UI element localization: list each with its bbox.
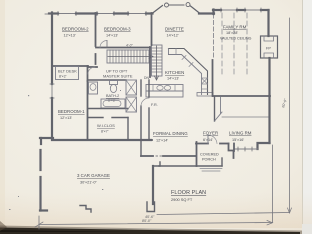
wall foot: garage SW corner <box>40 209 47 211</box>
dashed ceiling line 3 <box>246 13 248 74</box>
scan corner wedge <box>0 221 7 231</box>
svg-text:LIVING RM: LIVING RM <box>229 131 252 136</box>
svg-text:14'×12': 14'×12' <box>167 34 179 38</box>
svg-text:12'×13': 12'×13' <box>60 116 72 120</box>
wall: family room east lower <box>268 58 270 96</box>
wall: garage/dining vertical link <box>140 140 142 156</box>
text: refrigerator <box>151 103 158 107</box>
wall: west exterior lower <box>51 98 53 138</box>
svg-text:FAMILY RM: FAMILY RM <box>223 25 247 30</box>
fixture: tub <box>101 99 125 108</box>
wall: bedroom-3 east / dinette west <box>151 13 153 45</box>
svg-text:3 CAR GARAGE: 3 CAR GARAGE <box>77 173 110 178</box>
wall: dining west <box>148 80 150 97</box>
text: bedroom-1 <box>58 109 85 120</box>
wall stub: garage NW corner <box>40 138 42 144</box>
bay window right diagonal <box>191 6 201 14</box>
door arc: bedroom-3 <box>100 41 107 48</box>
text: bedroom-2 <box>62 27 89 38</box>
text: bedroom-3 <box>104 27 131 38</box>
svg-text:8'×7': 8'×7' <box>101 130 109 134</box>
wall: hall south / dining north region <box>141 139 152 141</box>
wall: family room north <box>213 9 268 11</box>
label: 4'-0 above stairs <box>126 44 134 48</box>
window: west wall bedroom-1 <box>51 84 53 98</box>
svg-text:FLOOR PLAN: FLOOR PLAN <box>171 190 206 196</box>
fixture: vanity <box>89 82 98 94</box>
porch steps <box>200 168 222 170</box>
svg-text:BEDROOM-3: BEDROOM-3 <box>104 27 131 32</box>
svg-text:VAULTED CEILING: VAULTED CEILING <box>220 37 252 41</box>
counter divisions <box>153 85 175 92</box>
svg-text:8'×2': 8'×2' <box>59 75 67 79</box>
fireplace FP <box>261 36 278 58</box>
door arc: hall/laundry <box>141 98 149 106</box>
bay window center <box>170 4 185 6</box>
wall: garage north (under house) <box>52 139 151 141</box>
svg-text:BEDROOM-1: BEDROOM-1 <box>58 109 85 114</box>
dashed ceiling line 1 <box>221 13 223 74</box>
porch south edge <box>159 165 222 167</box>
dimension extension: house east <box>272 145 274 223</box>
wall: garage east <box>152 166 154 204</box>
wall: dinette north to family room <box>199 12 214 14</box>
text: wic label <box>97 123 115 134</box>
svg-text:18'×28': 18'×28' <box>226 31 238 35</box>
wall: foyer west <box>196 142 198 166</box>
svg-text:BATH-2: BATH-2 <box>106 94 119 98</box>
wall: living room SE jog <box>258 143 270 149</box>
svg-text:BLT DESK: BLT DESK <box>58 69 77 74</box>
island cell division ticks <box>176 49 208 90</box>
bay column left <box>165 3 169 7</box>
dimension: right vertical 60'-0" <box>289 18 291 212</box>
wall: porch north / front door wall <box>196 143 208 145</box>
text: built-in desk label <box>58 69 77 79</box>
wall: dining south w/ opening <box>141 155 153 157</box>
sink ovals <box>157 86 163 91</box>
svg-text:MASTER SUITE: MASTER SUITE <box>103 74 133 79</box>
wall: bedroom-2 / bedroom-3 divider <box>95 13 97 46</box>
counter: kitchen south band <box>146 85 183 92</box>
door arc: bedroom-1 <box>88 67 95 74</box>
garage door jamb right pillar <box>147 202 155 212</box>
text: dinette <box>165 27 184 38</box>
text: formal dining <box>153 131 188 143</box>
wall: stair east wall <box>149 47 151 77</box>
wall: bedroom north solid segments <box>49 12 153 14</box>
wall: bath south <box>88 108 128 110</box>
svg-text:FOYER: FOYER <box>203 131 218 136</box>
dashed ceiling line 2 <box>233 13 235 74</box>
text: living room <box>229 131 252 143</box>
bottom scan shadow band <box>0 226 302 235</box>
bottom-right paper corner <box>302 224 312 234</box>
basement stair block by foyer <box>214 97 216 121</box>
window ticks north bedroom wall <box>58 12 146 16</box>
dimension: inner bottom line <box>157 213 290 215</box>
svg-text:PORCH: PORCH <box>202 158 216 162</box>
wall: bath north <box>88 79 126 81</box>
wall: living room south window <box>234 148 258 150</box>
fixture: toilet <box>110 81 118 85</box>
stairs: upper run treads <box>110 50 146 63</box>
wall: bedroom-3 south <box>96 47 150 49</box>
wall: garage west lower <box>39 177 41 211</box>
garage door jamb left-middle <box>80 206 91 213</box>
stairs: basement run outline <box>152 45 163 76</box>
closet cell X upper <box>126 80 137 95</box>
wall: kitchen east <box>212 60 214 96</box>
svg-text:FORMAL DINING: FORMAL DINING <box>153 131 188 136</box>
front door leaf+arc <box>207 135 209 144</box>
svg-text:BEDROOM-2: BEDROOM-2 <box>62 27 89 32</box>
wall: living room east <box>268 96 270 143</box>
wall: garage west upper <box>39 150 41 170</box>
wall: bedroom-2/3 north exterior (thin window line) <box>50 13 152 15</box>
text: kitchen <box>165 70 184 81</box>
svg-text:2900 SQ FT: 2900 SQ FT <box>171 197 193 202</box>
wall: jog west toward garage <box>40 137 53 139</box>
tick left of NW corner <box>45 13 49 15</box>
text: foyer <box>203 131 218 143</box>
wall: wic north <box>88 117 103 119</box>
wall: porch east jog <box>229 144 234 159</box>
svg-text:15'×16': 15'×16' <box>232 138 244 142</box>
text: covered porch <box>200 153 219 162</box>
stairs: upper run outline <box>107 50 149 63</box>
svg-text:30'×21'-0": 30'×21'-0" <box>80 181 97 185</box>
svg-text:DINETTE: DINETTE <box>165 27 184 32</box>
wall: family room east upper <box>267 10 269 36</box>
bay column right <box>186 3 190 7</box>
scan specks <box>9 90 121 210</box>
island: angled counter outer <box>169 49 208 95</box>
wall: family room jog up <box>212 10 214 15</box>
svg-text:4'-0": 4'-0" <box>126 44 134 48</box>
wall stub: living room SW <box>233 144 235 152</box>
wall stub: garage east / porch joint <box>153 162 160 166</box>
dimension: outer bottom line 85'-0" <box>39 223 272 225</box>
wall: hall east <box>140 80 142 96</box>
opening: living room north thin line <box>222 116 269 118</box>
wall: family room south <box>213 95 270 97</box>
stairs: upper run direction line <box>108 56 152 58</box>
wall: bedroom-2 south / hall <box>52 65 88 67</box>
svg-text:14'×13': 14'×13' <box>106 34 118 38</box>
svg-text:W.I.CLOS: W.I.CLOS <box>97 123 115 128</box>
svg-text:COVERED: COVERED <box>200 153 219 157</box>
island foot <box>197 93 213 97</box>
text: family room <box>220 25 252 41</box>
text: bath-2 <box>106 94 119 103</box>
stairs: basement direction line <box>156 46 158 79</box>
svg-text:F.R.: F.R. <box>151 103 158 107</box>
built-in desk box <box>56 67 79 80</box>
opening dots dining/porch <box>156 155 162 157</box>
wall: hall north segment <box>88 66 97 68</box>
paper left edge tint <box>0 0 5 234</box>
svg-text:12'×14': 12'×14' <box>156 139 168 143</box>
closet cell X lower <box>126 97 137 112</box>
wall: west exterior upper <box>51 13 53 85</box>
svg-text:14'×13': 14'×13' <box>167 77 179 81</box>
island: angled counter inner <box>169 55 202 95</box>
svg-text:FP: FP <box>266 47 271 51</box>
wall: bath-2 west / bedroom-1 east <box>87 66 89 81</box>
svg-text:85'-0": 85'-0" <box>142 219 152 223</box>
text: up to opt master suite <box>103 69 149 81</box>
wall: wic east <box>127 118 129 141</box>
stairs: basement run treads <box>152 48 163 72</box>
paper right edge line <box>303 0 312 234</box>
svg-text:12'×13': 12'×13' <box>64 34 76 38</box>
svg-text:KITCHEN: KITCHEN <box>165 70 184 75</box>
opening: dinette/family room dashed <box>213 14 215 58</box>
bay window left diagonal <box>152 6 163 14</box>
